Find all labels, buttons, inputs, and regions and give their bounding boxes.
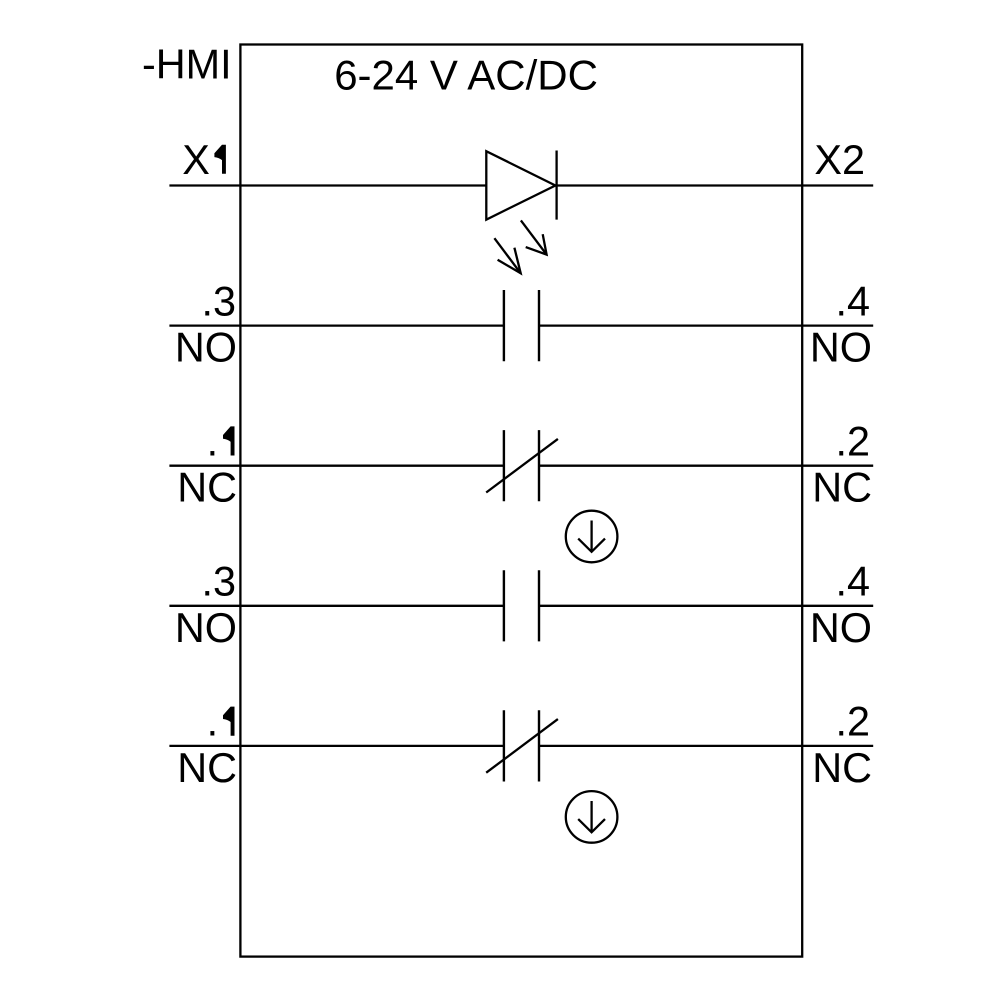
NC contact (row 3): [486, 430, 558, 501]
svg-text:.: .: [207, 419, 219, 465]
svg-text:6-24 V AC/DC: 6-24 V AC/DC: [334, 52, 598, 99]
wire .3 to NO contact (row 4): [169, 605, 504, 607]
svg-text:NO: NO: [175, 605, 237, 651]
wire .3 to NO contact: [169, 324, 504, 326]
LED lamp triangle (anode): [486, 151, 555, 219]
svg-text:.4: .4: [835, 559, 870, 605]
wire LED cathode to X2: [557, 184, 874, 186]
wire NC contact to .2 (row 5): [539, 745, 873, 747]
LED cathode bar: [555, 151, 557, 220]
NC contact (row 5): [486, 710, 558, 781]
wire .1 to NC contact: [169, 465, 504, 467]
NO contact (row 2): [504, 290, 539, 361]
svg-text:X2: X2: [814, 137, 865, 183]
svg-text:.2: .2: [835, 419, 870, 465]
svg-text:.4: .4: [835, 278, 870, 324]
wire X1 to LED anode: [169, 184, 486, 186]
svg-text:X: X: [182, 137, 210, 183]
svg-text:.3: .3: [201, 559, 236, 605]
svg-text:.: .: [207, 699, 219, 745]
device outline (pushbutton body): [240, 45, 802, 957]
svg-text:.3: .3: [201, 278, 236, 324]
svg-text:NC: NC: [812, 745, 872, 791]
svg-text:NC: NC: [177, 465, 237, 511]
actuator symbol (row 3 plunger circle): [566, 511, 618, 563]
LED emission arrow 2: [494, 238, 520, 273]
svg-text:NC: NC: [812, 465, 872, 511]
wire NC contact to .2: [539, 465, 873, 467]
svg-text:-HMI: -HMI: [142, 41, 232, 87]
svg-text:NO: NO: [175, 325, 237, 371]
wire NO contact to .4 (row 4): [539, 605, 873, 607]
svg-text:NO: NO: [810, 325, 872, 371]
svg-text:NC: NC: [177, 745, 237, 791]
NO contact (row 4): [504, 570, 539, 641]
svg-text:.2: .2: [835, 699, 870, 745]
LED emission arrow 1: [521, 220, 547, 254]
wire .1 to NC contact (row 5): [169, 745, 504, 747]
wire NO contact to .4: [539, 324, 873, 326]
svg-text:NO: NO: [810, 605, 872, 651]
actuator symbol (row 5 plunger circle): [566, 791, 618, 843]
